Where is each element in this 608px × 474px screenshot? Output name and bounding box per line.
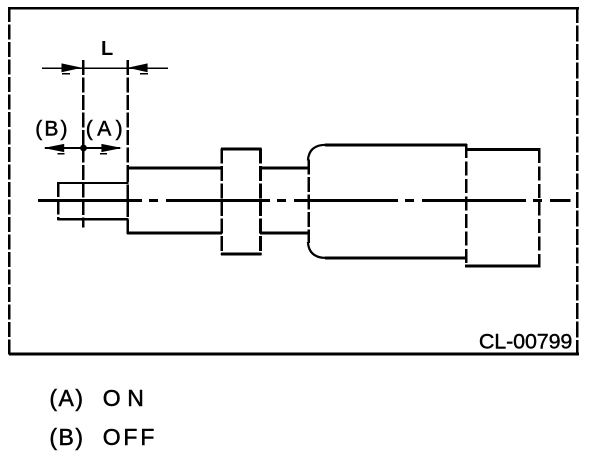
connector bottom line [465, 264, 541, 267]
travel arrowhead A (points right) [101, 144, 122, 152]
dimension arrowhead right tail tick [140, 73, 148, 75]
svg-text:(A): (A) [86, 118, 123, 141]
dimension arrowhead left tail tick [62, 73, 70, 75]
shank left edge / extension continuation [127, 167, 129, 234]
plunger tip left edge [57, 182, 59, 220]
threaded shank top line [127, 167, 222, 170]
plunger tip bottom line [57, 218, 128, 221]
middle cylinder bottom line [260, 232, 309, 235]
travel reference dot [80, 145, 87, 152]
hex flange top line [221, 148, 262, 151]
dimension arrowhead left (points right) [62, 63, 83, 72]
hex flange left edge [220, 148, 223, 254]
svg-text:OFF: OFF [103, 424, 155, 450]
frame left border [8, 7, 10, 355]
extension line left [82, 60, 84, 228]
svg-text:(A): (A) [49, 385, 83, 411]
hex flange bottom line [221, 253, 262, 256]
body top line [325, 143, 467, 146]
svg-text:(B): (B) [49, 424, 83, 450]
centerline [38, 199, 571, 202]
svg-text:L: L [101, 38, 113, 60]
body bottom line [325, 257, 466, 260]
hex flange right edge [259, 148, 262, 254]
threaded shank bottom line [127, 232, 222, 235]
svg-text:CL-00799: CL-00799 [479, 330, 573, 354]
travel arrowhead A tail tick [100, 153, 107, 155]
connector right edge [538, 149, 540, 267]
body left edge [308, 160, 310, 244]
frame bottom border [9, 353, 579, 356]
extension line right [127, 60, 129, 167]
travel arrow line [45, 147, 120, 149]
body top-left fillet [308, 145, 326, 161]
svg-text:(B): (B) [35, 118, 67, 141]
dimension arrowhead right (points left) [128, 63, 148, 72]
travel arrowhead B (points left) [44, 144, 65, 152]
connector top line [465, 148, 540, 151]
frame right border [576, 7, 579, 355]
body right edge / connector left edge [465, 144, 467, 267]
middle cylinder top line [260, 167, 309, 170]
frame top border [9, 7, 579, 10]
travel arrowhead B tail tick [58, 153, 65, 155]
plunger tip top line [57, 182, 128, 184]
dimension line [42, 67, 168, 69]
body bottom-left fillet [308, 242, 326, 258]
